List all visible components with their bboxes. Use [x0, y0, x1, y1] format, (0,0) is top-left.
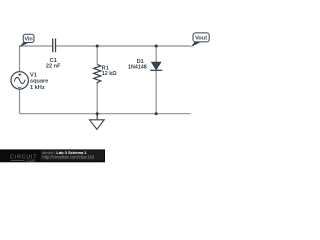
wire left vertical upper [19, 45, 21, 71]
svg-text:http://circuitlab.com/c6ac1k3: http://circuitlab.com/c6ac1k3 [42, 154, 94, 159]
junction bottom R1/ground [96, 112, 99, 115]
wire D1 branch bottom [155, 70, 157, 113]
ground [90, 114, 105, 130]
wire R1 branch bottom [96, 84, 98, 114]
svg-text:1N4148: 1N4148 [128, 65, 147, 71]
wire D1 branch top [155, 46, 157, 62]
voltage source V1 [11, 72, 48, 91]
svg-text:1 kHz: 1 kHz [30, 85, 45, 91]
footer watermark bar [0, 149, 105, 163]
svg-text:LAB: LAB [27, 158, 36, 163]
wire bottom rail [20, 113, 191, 115]
svg-text:Vout: Vout [195, 36, 207, 42]
capacitor C1 [46, 39, 61, 70]
diode D1 [128, 59, 162, 70]
node Vin flag [19, 34, 34, 47]
wire left vertical lower [19, 89, 21, 114]
junction bottom D1 [155, 112, 158, 115]
wire capacitor to Vout end [56, 45, 191, 47]
wire R1 branch top [96, 46, 98, 64]
wire top-left to capacitor [20, 45, 53, 47]
node Vout flag [191, 33, 210, 47]
svg-text:Vin: Vin [24, 37, 32, 43]
svg-text:12 kΩ: 12 kΩ [102, 71, 117, 77]
resistor R1 [94, 64, 118, 83]
junction top R1 [96, 45, 99, 48]
svg-text:22 nF: 22 nF [46, 64, 61, 70]
svg-text:square: square [30, 79, 48, 85]
junction top D1 [155, 45, 158, 48]
